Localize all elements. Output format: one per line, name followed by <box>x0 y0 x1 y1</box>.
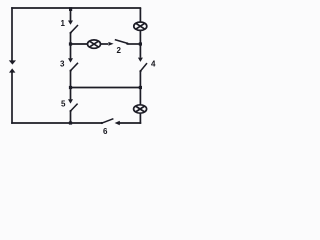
wire mid branch left of lamp <box>71 43 88 45</box>
node at top of middle rail <box>69 7 72 11</box>
wire top rail <box>11 7 141 9</box>
lamp bottom right <box>134 105 147 113</box>
terminal arrow down (supply) <box>9 60 16 64</box>
wire left rail lower <box>11 72 13 124</box>
wire right rail switch 4 to lamp 3 <box>139 71 141 104</box>
switch 1 <box>61 19 79 34</box>
svg-text:3: 3 <box>60 59 65 68</box>
lamp top right <box>134 22 147 30</box>
wire mid branch right of switch 2 <box>128 43 142 45</box>
node middle rail / bottom rail <box>69 121 72 124</box>
wire middle rail switch 3 to switch 5 <box>70 71 72 100</box>
node right rail / mid2 branch <box>139 86 142 89</box>
switch 6 <box>101 119 120 136</box>
lamp on mid branch <box>88 40 101 48</box>
wire mid branch lamp to switch 2 arrow <box>101 43 108 45</box>
wire middle rail above switch 1 <box>70 8 72 21</box>
wire left rail upper <box>11 7 13 61</box>
switch 3 <box>60 58 78 71</box>
svg-text:4: 4 <box>151 59 156 68</box>
wire mid2 horizontal branch <box>71 87 142 89</box>
switch 2 <box>108 40 128 55</box>
wire right rail lamp to switch 4 arrow <box>139 31 141 58</box>
terminal arrow up (supply) <box>9 68 15 72</box>
node middle rail / mid2 branch <box>69 86 72 89</box>
wire right rail top to lamp <box>139 8 141 22</box>
wire middle rail below switch 5 <box>70 111 72 123</box>
wire bottom rail left <box>11 122 102 124</box>
svg-text:1: 1 <box>61 19 66 28</box>
svg-text:6: 6 <box>103 127 108 136</box>
wire bottom rail right <box>118 122 141 124</box>
node middle rail / mid branch <box>69 42 72 45</box>
svg-text:5: 5 <box>61 99 66 108</box>
node right rail / mid branch <box>139 42 142 45</box>
switch 4 <box>138 58 156 73</box>
switch 5 <box>61 99 78 112</box>
wire middle rail switch 1 to switch 3 <box>70 33 72 58</box>
wire right rail below lamp 3 <box>139 114 141 124</box>
svg-text:2: 2 <box>117 46 122 55</box>
